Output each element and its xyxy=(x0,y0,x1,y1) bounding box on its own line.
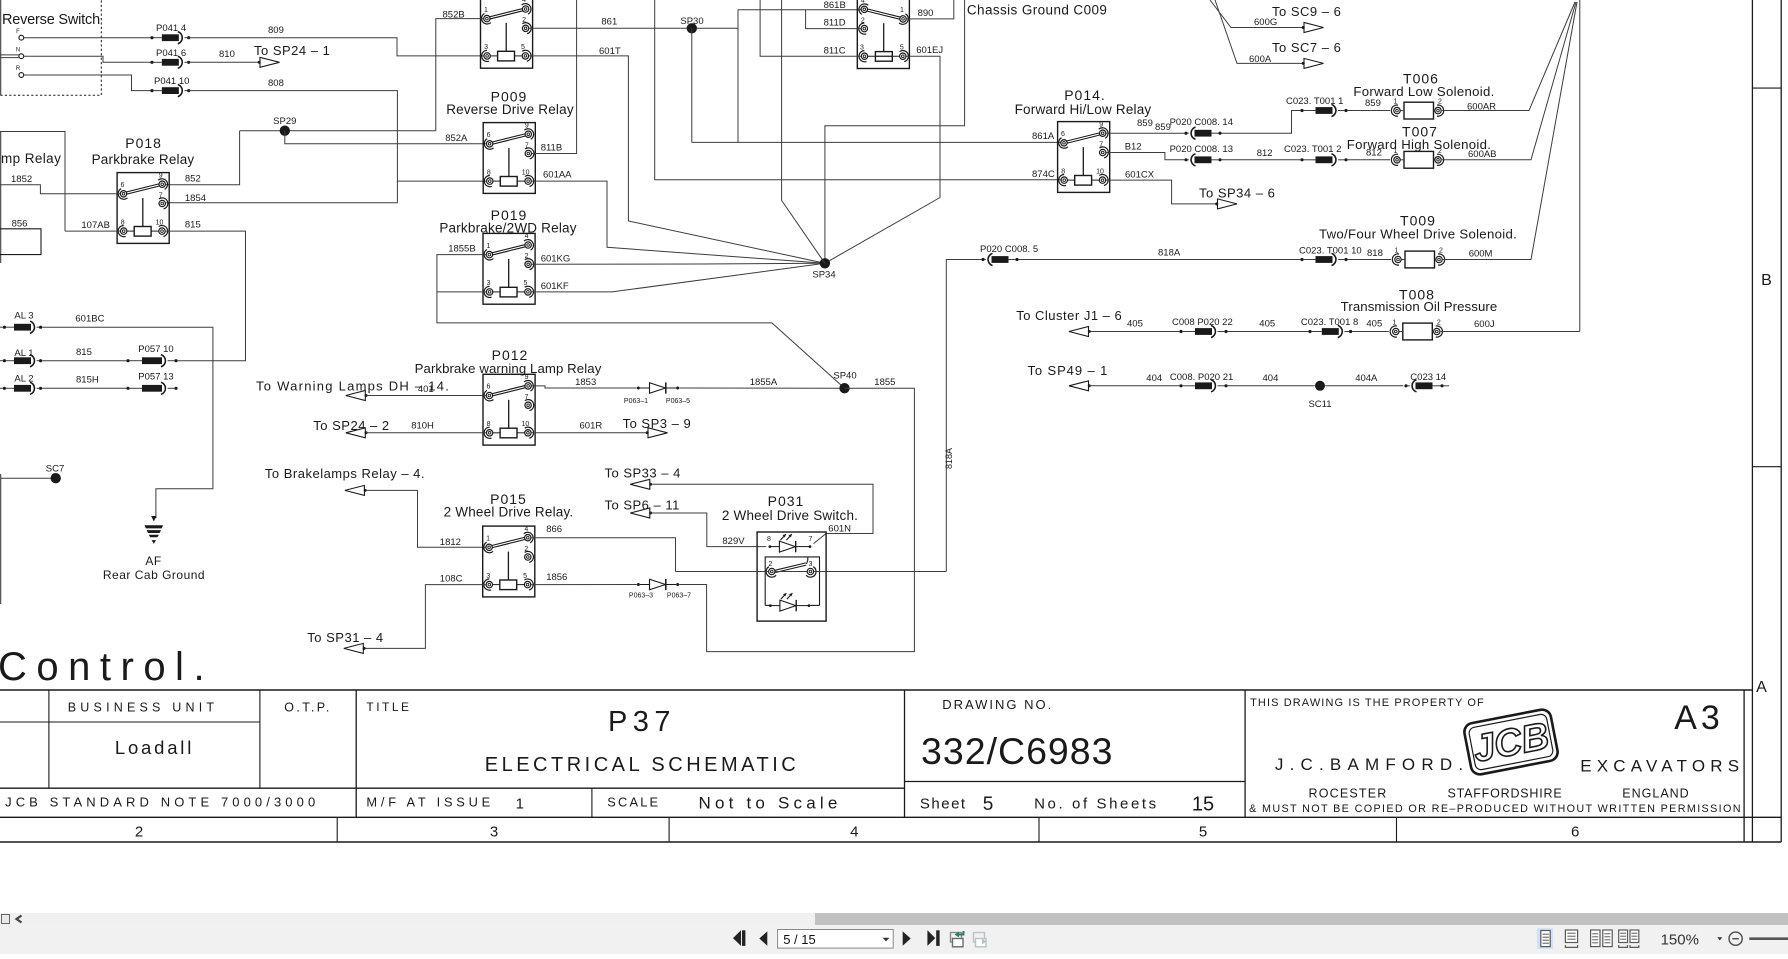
svg-text:EXCAVATORS: EXCAVATORS xyxy=(1580,757,1744,776)
svg-text:874C: 874C xyxy=(1032,169,1055,180)
relay (cut at top, above P009) xyxy=(481,0,533,68)
svg-text:SC7: SC7 xyxy=(46,464,64,475)
svg-text:mp Relay: mp Relay xyxy=(1,151,61,166)
svg-text:8: 8 xyxy=(1061,168,1065,175)
svg-text:405: 405 xyxy=(1366,319,1382,330)
svg-text:856: 856 xyxy=(12,219,28,230)
svg-text:601EJ: 601EJ xyxy=(916,45,943,56)
svg-text:M/F AT ISSUE: M/F AT ISSUE xyxy=(366,795,494,810)
P031 inner box xyxy=(765,557,819,606)
svg-text:600AB: 600AB xyxy=(1468,149,1497,160)
svg-text:10: 10 xyxy=(522,169,530,176)
svg-text:P041 4: P041 4 xyxy=(156,23,186,34)
svg-text:To SC7 – 6: To SC7 – 6 xyxy=(1272,40,1341,55)
toolbar prev-page button xyxy=(759,931,767,945)
svg-text:1852: 1852 xyxy=(11,174,32,185)
toolbar zoom slider track xyxy=(1749,937,1788,940)
svg-text:1: 1 xyxy=(1394,148,1398,155)
svg-text:BUSINESS UNIT: BUSINESS UNIT xyxy=(68,701,218,715)
svg-text:818A: 818A xyxy=(1158,248,1181,259)
svg-text:P031: P031 xyxy=(768,493,805,509)
wire 861/SP34 riser from x=781 xyxy=(782,0,825,263)
svg-text:THIS DRAWING IS THE PROPER: THIS DRAWING IS THE PROPERTY OF xyxy=(1250,697,1485,709)
svg-text:Parkbrake Relay: Parkbrake Relay xyxy=(92,152,195,167)
svg-text:2: 2 xyxy=(1438,99,1442,106)
svg-text:404: 404 xyxy=(1146,373,1162,384)
svg-text:811B: 811B xyxy=(541,143,562,154)
ground AF Rear Cab Ground xyxy=(145,516,164,544)
svg-text:5: 5 xyxy=(523,573,527,580)
svg-text:1: 1 xyxy=(1395,248,1399,255)
wire 808 branch into P009 pin 8 xyxy=(397,180,486,182)
svg-text:9: 9 xyxy=(1099,121,1103,128)
svg-text:Reverse Drive Relay: Reverse Drive Relay xyxy=(446,102,574,117)
svg-text:6: 6 xyxy=(121,182,125,189)
svg-text:Two/Four Wheel Drive Solenoid.: Two/Four Wheel Drive Solenoid. xyxy=(1319,226,1517,241)
svg-text:AL 3: AL 3 xyxy=(14,311,33,322)
svg-text:3: 3 xyxy=(860,44,864,51)
svg-text:8: 8 xyxy=(767,536,771,543)
wire 405 xyxy=(1089,331,1179,333)
logo JCB xyxy=(1463,708,1559,776)
svg-text:601N: 601N xyxy=(828,524,851,535)
svg-text:1855B: 1855B xyxy=(448,244,475,255)
svg-text:601R: 601R xyxy=(580,421,603,432)
wire 601N diagonal into P031 pin 7 xyxy=(814,534,827,544)
svg-text:P020 C008. 13: P020 C008. 13 xyxy=(1170,144,1233,155)
svg-text:2 Wheel Drive Relay.: 2 Wheel Drive Relay. xyxy=(444,504,574,519)
svg-text:332/C6983: 332/C6983 xyxy=(921,730,1114,772)
svg-text:4: 4 xyxy=(525,233,529,240)
svg-text:812: 812 xyxy=(1257,148,1273,159)
svg-text:To SP34 – 6: To SP34 – 6 xyxy=(1199,186,1275,201)
toolbar previous-view icon xyxy=(951,933,962,943)
svg-text:C008 P020 22: C008 P020 22 xyxy=(1172,317,1233,328)
svg-text:STAFFORDSHIRE: STAFFORDSHIRE xyxy=(1447,787,1562,801)
svg-text:To SP3 – 9: To SP3 – 9 xyxy=(623,416,692,431)
svg-text:404A: 404A xyxy=(1355,373,1378,384)
svg-text:2: 2 xyxy=(522,17,526,24)
wire F to P041-4 xyxy=(24,37,152,39)
svg-text:818: 818 xyxy=(1367,248,1383,259)
svg-text:107AB: 107AB xyxy=(81,220,110,231)
title block frame xyxy=(0,689,1752,691)
svg-text:1: 1 xyxy=(1392,320,1396,327)
wire R jog to P041-10 xyxy=(24,75,152,91)
wire P019 pin 3 branch xyxy=(437,291,486,293)
svg-text:859: 859 xyxy=(1155,122,1171,133)
svg-text:1: 1 xyxy=(516,796,524,813)
svg-text:JCB STANDARD NOTE 7000/3000: JCB STANDARD NOTE 7000/3000 xyxy=(5,795,319,810)
toolbar next-view icon (disabled) xyxy=(974,933,985,943)
svg-text:SCALE: SCALE xyxy=(607,795,660,810)
svg-text:5: 5 xyxy=(523,280,527,287)
horizontal scrollbar xyxy=(0,913,1788,925)
svg-text:Reverse Switch: Reverse Switch xyxy=(2,12,100,28)
svg-text:To Cluster J1 – 6: To Cluster J1 – 6 xyxy=(1016,308,1122,323)
svg-text:8: 8 xyxy=(487,169,491,176)
svg-text:ROCESTER: ROCESTER xyxy=(1308,787,1387,801)
svg-text:To SP31 – 4: To SP31 – 4 xyxy=(307,630,383,645)
svg-text:DRAWING NO.: DRAWING NO. xyxy=(942,697,1053,712)
wire into SC7 xyxy=(1,477,51,479)
wire N jog to P041-6 xyxy=(24,56,152,62)
node SC11 xyxy=(1315,381,1325,391)
wire 859 riser xyxy=(1222,111,1301,134)
svg-text:2: 2 xyxy=(1437,320,1441,327)
svg-text:Rear Cab Ground: Rear Cab Ground xyxy=(103,568,205,582)
svg-text:401: 401 xyxy=(418,384,434,395)
wire 861B riser xyxy=(737,10,739,143)
svg-text:2: 2 xyxy=(525,253,529,260)
svg-text:No. of Sheets: No. of Sheets xyxy=(1034,796,1159,813)
svg-text:AF: AF xyxy=(145,554,161,568)
svg-text:P020 C008. 14: P020 C008. 14 xyxy=(1170,117,1233,128)
svg-text:1855: 1855 xyxy=(874,377,895,388)
svg-text:601BC: 601BC xyxy=(75,314,104,325)
svg-text:3: 3 xyxy=(487,280,491,287)
svg-text:808: 808 xyxy=(268,78,284,89)
svg-text:6: 6 xyxy=(1571,824,1579,841)
svg-text:3: 3 xyxy=(809,561,813,568)
svg-text:N: N xyxy=(16,48,20,54)
svg-text:810: 810 xyxy=(219,49,235,60)
svg-text:C023 14: C023 14 xyxy=(1410,372,1446,383)
svg-text:SP40: SP40 xyxy=(833,370,856,381)
svg-text:600J: 600J xyxy=(1474,319,1495,330)
toolbar page number box xyxy=(778,930,894,949)
svg-text:P041 10: P041 10 xyxy=(154,76,189,87)
svg-text:P063–7: P063–7 xyxy=(667,593,691,600)
svg-text:To SP49 – 1: To SP49 – 1 xyxy=(1028,363,1109,378)
svg-text:O.T.P.: O.T.P. xyxy=(284,701,332,715)
svg-text:C023. T001 10: C023. T001 10 xyxy=(1299,246,1362,257)
svg-text:861A: 861A xyxy=(1032,131,1055,142)
svg-text:P057 13: P057 13 xyxy=(138,372,173,383)
svg-text:To SP24 – 1: To SP24 – 1 xyxy=(254,43,330,58)
svg-text:1: 1 xyxy=(486,536,490,543)
wire 401 xyxy=(366,395,486,397)
svg-text:9: 9 xyxy=(159,172,163,179)
svg-text:7: 7 xyxy=(159,192,163,199)
svg-text:5 / 15: 5 / 15 xyxy=(783,932,816,947)
svg-text:4: 4 xyxy=(861,0,865,5)
svg-text:829V: 829V xyxy=(722,536,745,547)
svg-text:601KF: 601KF xyxy=(541,281,569,292)
svg-text:810H: 810H xyxy=(411,421,434,432)
svg-text:SC11: SC11 xyxy=(1308,399,1331,410)
svg-text:& MUST NOT BE COPIED OR RE–PRO: & MUST NOT BE COPIED OR RE–PRODUCED WITH… xyxy=(1249,803,1742,815)
wire 810H xyxy=(366,432,486,434)
wire C009 riser at right xyxy=(1579,0,1581,332)
svg-text:1853: 1853 xyxy=(575,377,596,388)
svg-text:1: 1 xyxy=(1394,99,1398,106)
toolbar next-page button xyxy=(903,931,911,945)
svg-text:5: 5 xyxy=(900,44,904,51)
svg-text:852: 852 xyxy=(185,174,201,185)
right margin zone strip xyxy=(1751,0,1753,842)
svg-text:7: 7 xyxy=(525,142,529,149)
wire N double-line stub xyxy=(0,54,19,56)
svg-text:5: 5 xyxy=(1199,824,1207,841)
toolbar continuous layout xyxy=(1565,930,1577,943)
svg-text:10: 10 xyxy=(522,421,530,428)
svg-text:SP34: SP34 xyxy=(812,270,835,281)
svg-text:To Brakelamps Relay – 4.: To Brakelamps Relay – 4. xyxy=(265,466,425,481)
svg-text:P014.: P014. xyxy=(1064,87,1106,103)
svg-text:1: 1 xyxy=(484,7,488,14)
svg-text:2: 2 xyxy=(135,824,143,841)
toolbar facing layout xyxy=(1591,930,1600,947)
svg-text:815H: 815H xyxy=(76,375,99,386)
svg-text:4: 4 xyxy=(850,824,858,841)
svg-text:4: 4 xyxy=(522,0,526,4)
wire to Chassis Ground from SP34 xyxy=(825,0,965,263)
relay (cut at top, right of SP30) xyxy=(857,0,909,69)
svg-text:P057 10: P057 10 xyxy=(138,344,173,355)
svg-text:600M: 600M xyxy=(1469,249,1493,260)
svg-text:859: 859 xyxy=(1137,118,1153,129)
svg-text:3: 3 xyxy=(486,573,490,580)
svg-text:815: 815 xyxy=(185,220,201,231)
svg-text:8: 8 xyxy=(121,219,125,226)
svg-text:5: 5 xyxy=(521,44,525,51)
svg-text:7: 7 xyxy=(525,394,529,401)
svg-text:A: A xyxy=(1756,679,1767,696)
svg-text:Chassis Ground C009: Chassis Ground C009 xyxy=(967,2,1107,17)
svg-text:J.C.BAMFORD.: J.C.BAMFORD. xyxy=(1275,755,1469,774)
svg-text:P063–1: P063–1 xyxy=(624,398,648,405)
svg-text:Not to Scale: Not to Scale xyxy=(698,794,841,813)
svg-text:866: 866 xyxy=(546,524,562,535)
svg-text:Sheet: Sheet xyxy=(920,796,967,813)
toolbar facing-continuous layout xyxy=(1619,930,1628,943)
svg-text:P37: P37 xyxy=(608,706,676,738)
wire SP30 down leg xyxy=(691,28,693,142)
svg-text:818A: 818A xyxy=(944,448,954,469)
diode P063-3 / P063-7 xyxy=(637,579,679,590)
svg-text:9: 9 xyxy=(525,374,529,381)
svg-text:To SP33 – 4: To SP33 – 4 xyxy=(605,466,681,481)
svg-text:P018: P018 xyxy=(125,135,162,151)
svg-text:7: 7 xyxy=(1099,141,1103,148)
svg-text:815: 815 xyxy=(76,347,92,358)
svg-text:2 Wheel Drive Switch.: 2 Wheel Drive Switch. xyxy=(722,508,858,523)
toolbar single-page layout (active) xyxy=(1537,928,1553,949)
toolbar last-page button xyxy=(927,930,935,946)
svg-text:To SP24 – 2: To SP24 – 2 xyxy=(313,418,389,433)
svg-text:852A: 852A xyxy=(445,133,468,144)
svg-text:Transmission Oil Pressure: Transmission Oil Pressure xyxy=(1341,299,1498,314)
svg-text:15: 15 xyxy=(1192,794,1214,816)
svg-text:9: 9 xyxy=(525,122,529,129)
svg-text:Loadall: Loadall xyxy=(115,737,194,758)
svg-text:2: 2 xyxy=(1439,248,1443,255)
toolbar zoom-out button xyxy=(1729,932,1742,945)
diode P063-1 / P063-5 xyxy=(637,382,679,393)
svg-text:P041 6: P041 6 xyxy=(156,48,186,59)
svg-text:ELECTRICAL SCHEMATIC: ELECTRICAL SCHEMATIC xyxy=(485,754,799,776)
svg-text:2: 2 xyxy=(861,17,865,24)
svg-text:859: 859 xyxy=(1365,98,1381,109)
svg-text:8: 8 xyxy=(487,421,491,428)
left page-cut border lines xyxy=(0,0,2,95)
svg-text:1855A: 1855A xyxy=(750,377,778,388)
svg-text:Forward Hi/Low Relay: Forward Hi/Low Relay xyxy=(1015,102,1152,117)
svg-text:F: F xyxy=(16,29,20,35)
P031 bottom LED xyxy=(765,604,769,606)
wire 404 xyxy=(1089,385,1179,387)
svg-text:10: 10 xyxy=(1096,168,1104,175)
svg-text:861: 861 xyxy=(601,16,617,27)
svg-text:1: 1 xyxy=(900,7,904,14)
svg-text:2: 2 xyxy=(769,561,773,568)
svg-text:C008. P020 21: C008. P020 21 xyxy=(1170,372,1233,383)
svg-text:C023. T001 8: C023. T001 8 xyxy=(1301,317,1358,328)
svg-text:SP29: SP29 xyxy=(273,116,296,127)
svg-text:1812: 1812 xyxy=(440,537,461,548)
svg-text:ENGLAND: ENGLAND xyxy=(1622,787,1689,801)
svg-text:P063–5: P063–5 xyxy=(666,398,690,405)
svg-text:811D: 811D xyxy=(824,18,846,29)
viewer toolbar xyxy=(0,925,1788,954)
svg-text:TITLE: TITLE xyxy=(366,700,411,714)
svg-text:2: 2 xyxy=(1438,148,1442,155)
svg-text:405: 405 xyxy=(1127,319,1143,330)
svg-text:6: 6 xyxy=(487,132,491,139)
svg-text:150%: 150% xyxy=(1661,931,1699,948)
svg-text:A3: A3 xyxy=(1674,699,1724,737)
svg-text:405: 405 xyxy=(1259,319,1275,330)
svg-text:Forward Low Solenoid.: Forward Low Solenoid. xyxy=(1353,84,1494,99)
svg-text:890: 890 xyxy=(918,8,934,19)
wire through P031 switch row xyxy=(676,571,769,573)
svg-text:809: 809 xyxy=(268,25,284,36)
svg-text:P063–3: P063–3 xyxy=(629,593,653,600)
svg-text:404: 404 xyxy=(1263,373,1279,384)
svg-text:811C: 811C xyxy=(824,46,846,57)
wire 852 / SP29 horizontal xyxy=(240,130,436,132)
svg-text:601T: 601T xyxy=(599,46,621,57)
svg-text:3: 3 xyxy=(490,824,498,841)
svg-text:5: 5 xyxy=(983,794,994,815)
svg-text:Control.: Control. xyxy=(0,645,214,689)
svg-text:6: 6 xyxy=(486,384,490,391)
node SP34 xyxy=(820,258,830,268)
svg-text:601KG: 601KG xyxy=(541,254,571,265)
svg-text:1856: 1856 xyxy=(546,572,567,583)
toolbar first-page button xyxy=(733,930,741,946)
svg-text:601CX: 601CX xyxy=(1125,170,1155,181)
svg-text:B12: B12 xyxy=(1125,142,1142,153)
svg-text:B: B xyxy=(1761,272,1772,289)
svg-text:10: 10 xyxy=(156,219,164,226)
svg-text:601AA: 601AA xyxy=(543,170,572,181)
wire 601N loop xyxy=(651,484,873,533)
svg-text:P020 C008. 5: P020 C008. 5 xyxy=(980,244,1038,255)
svg-text:6: 6 xyxy=(1061,131,1065,138)
svg-text:7: 7 xyxy=(809,536,813,543)
svg-text:R: R xyxy=(16,66,21,72)
svg-text:108C: 108C xyxy=(440,574,463,585)
svg-text:1: 1 xyxy=(486,243,490,250)
svg-text:4: 4 xyxy=(524,526,528,533)
svg-text:2: 2 xyxy=(524,546,528,553)
svg-text:To SC9 – 6: To SC9 – 6 xyxy=(1272,4,1341,19)
switch S1 Reverse Switch (dashed enclosure) xyxy=(0,0,101,95)
wire 818A to C023 xyxy=(1019,259,1301,261)
svg-text:3: 3 xyxy=(484,44,488,51)
